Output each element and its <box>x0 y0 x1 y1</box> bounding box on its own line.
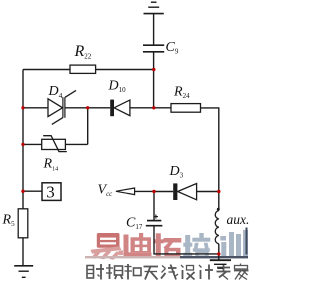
resistor R5 <box>18 209 28 238</box>
node C junction dot <box>86 106 89 109</box>
wire: left vertical rail <box>22 70 24 209</box>
wire: R34 right to riser <box>65 143 87 145</box>
diode D3 <box>173 183 196 200</box>
watermark underline <box>85 256 180 258</box>
wire: top horizontal left segment <box>23 69 70 71</box>
Vcc arrow head <box>116 188 135 195</box>
diode D10 <box>110 100 130 117</box>
wire: node E to Vcc arrow <box>135 190 154 192</box>
wire: node D to D3 <box>197 191 219 193</box>
char Jia <box>234 264 249 280</box>
char Tuo <box>154 233 181 257</box>
wire: node E down to C17 <box>153 192 155 221</box>
wire: D4 to node C <box>65 107 88 109</box>
char Xian <box>161 265 178 280</box>
wire: node C to D10 <box>88 107 111 109</box>
capacitor C9 <box>143 45 164 52</box>
junction dot left rail / D4 <box>21 106 24 109</box>
char Tian <box>144 267 159 280</box>
wire: C9 to node A <box>153 52 155 70</box>
diode D4 (zener) <box>48 90 76 124</box>
node B junction dot <box>152 106 155 109</box>
resistor R22 <box>70 65 96 73</box>
node F junction dot <box>217 252 220 255</box>
inductor aux. winding <box>215 208 220 244</box>
node A junction dot <box>152 68 155 71</box>
wire: riser joining R34 to node C <box>87 108 89 145</box>
wire: R22 to node A <box>96 69 154 71</box>
wire: C17 down and right to node F <box>154 226 219 254</box>
char Pei <box>183 233 210 257</box>
ground (bottom left) <box>14 266 33 278</box>
char Pin <box>106 264 123 279</box>
capacitor C17 (polarized) <box>146 215 163 226</box>
wire: D10 to node B <box>130 107 154 109</box>
wire: coil bottom to node F and ground <box>218 244 220 260</box>
wire: D3 to node E <box>154 191 173 193</box>
char She2 <box>181 265 195 280</box>
block 3 <box>42 183 61 201</box>
ground (top, above C9, inverted) <box>144 2 164 13</box>
wire: node A down to node B <box>153 70 155 108</box>
ground (bottom right) <box>210 260 231 268</box>
wire: node B to R24 <box>154 107 171 109</box>
watermark row 1: 易迪拓培训 logo <box>85 228 248 260</box>
char Ji <box>199 265 213 280</box>
wire: left rail to R34 <box>23 143 42 145</box>
junction dot left rail / block 3 <box>21 190 24 193</box>
svg-text:3: 3 <box>46 182 55 201</box>
node D junction dot <box>217 190 220 193</box>
char Xun <box>220 228 248 258</box>
wire: left rail to block 3 <box>23 190 42 192</box>
char He <box>125 264 142 280</box>
wire: R5 to ground <box>22 238 24 266</box>
char She <box>87 264 104 280</box>
char Di <box>124 233 152 258</box>
resistor R24 <box>171 104 201 113</box>
junction dot left rail / R34 <box>21 143 24 146</box>
char Yi <box>91 233 124 260</box>
wire: left rail to D4 <box>23 107 48 109</box>
wire: top ground to C9 <box>153 14 155 45</box>
resistor R34 (thermistor) <box>42 136 67 152</box>
watermark row 2: gray slogan text <box>87 264 249 280</box>
wire: right rail node D to coil <box>218 192 220 210</box>
node E junction dot <box>152 190 155 193</box>
char Zhuan <box>217 264 231 280</box>
svg-text:aux.: aux. <box>227 212 250 227</box>
wire: R24 to right rail corner <box>201 108 219 192</box>
